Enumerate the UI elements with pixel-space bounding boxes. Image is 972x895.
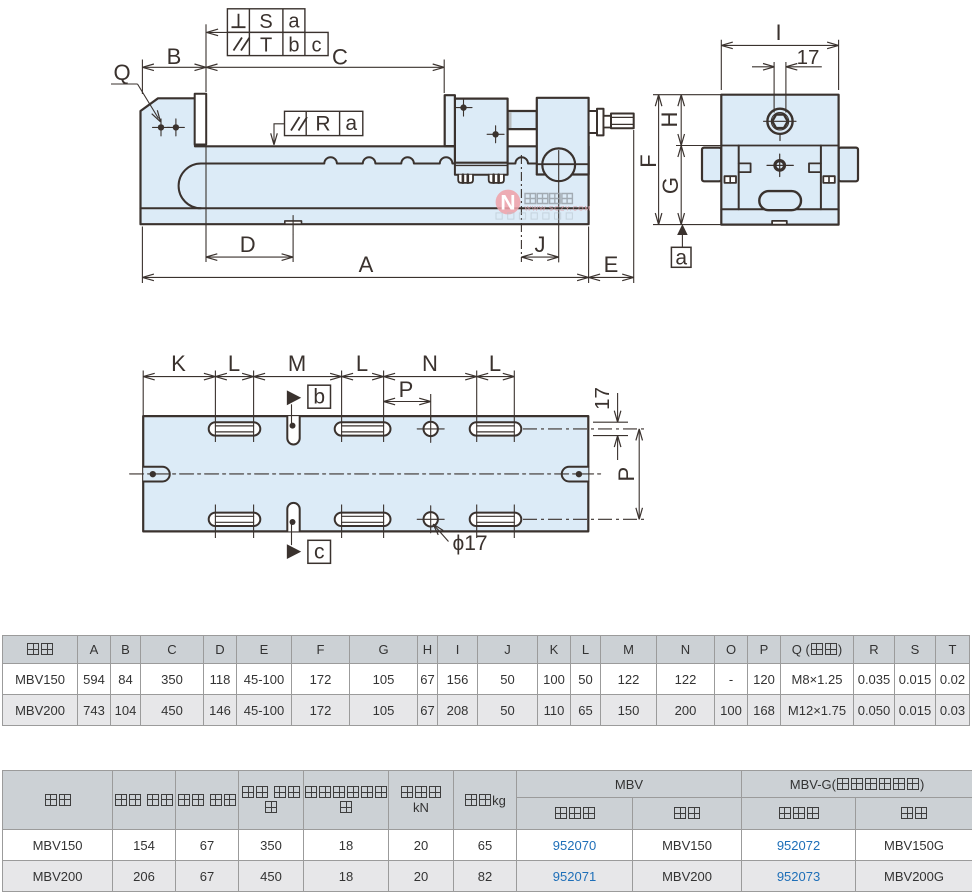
svg-text:b: b [288,35,299,57]
svg-text:Q: Q [113,60,130,85]
movable jaw plate [445,95,455,146]
dim G [680,146,682,225]
slot scalloped top line [201,157,589,163]
svg-text:J: J [535,232,546,257]
plan view body [143,416,588,531]
tolerance frame leader arrow [208,31,227,33]
plan M slot top [287,416,299,444]
end view center target circle [775,161,785,171]
dimension table 1 [2,635,970,726]
svg-text:N: N [500,192,515,215]
svg-text:ϕ17: ϕ17 [452,532,487,555]
svg-text:a: a [675,247,687,270]
extension line movable jaw face [443,60,445,94]
plan top slot 3 [470,422,522,435]
lead screw circle inner [771,113,788,130]
engineering drawing SVG [0,0,972,630]
screw collar 2 [597,109,604,136]
lead screw crosshair [764,121,796,140]
key tab centerline [292,216,294,235]
svg-text:L: L [228,351,240,376]
movable jaw gripper foot left [458,175,473,183]
plan bottom slot 1 [209,513,261,526]
svg-text:G: G [658,177,683,194]
handle hole vertical crosshair / J extension [558,151,560,263]
dim P right [638,429,640,519]
section flag c [287,545,300,558]
end view bottom key notch [772,221,787,225]
vise body (side view) [141,98,589,224]
parallelism frame (// R a) [285,111,363,135]
leader phi17 [434,526,448,542]
svg-text:T: T [260,35,272,57]
plan right slot centerlines [523,429,648,519]
svg-text:H: H [657,112,682,128]
handle hole circle [542,148,575,181]
plan bottom slot 2 [335,513,391,526]
extension line fixed jaw face [205,24,207,92]
svg-text:P: P [614,467,639,482]
svg-text:L: L [489,351,501,376]
slot line through bracket + circle crosshair [537,163,589,165]
section flag b [287,391,300,404]
end view left ear [702,148,721,182]
plan N hole bottom [424,512,438,526]
dim A [142,276,588,278]
plan right slot edge extensions [593,422,628,435]
svg-text:P: P [399,377,414,402]
end view main body [721,95,838,225]
end view base flange line [721,208,838,210]
plan top slot 2 [335,422,391,435]
movable jaw screw block [508,111,537,129]
plan bottom slot 3 [470,513,522,526]
movable jaw block [455,99,508,163]
extension lines A [142,227,588,284]
datum a box [671,247,691,267]
extension line E right (screw tip) [633,130,635,283]
svg-text:B: B [167,44,182,69]
svg-text:A: A [359,252,374,277]
screw collar 1 [589,111,597,133]
svg-text:c: c [312,35,322,57]
extension line D left (jaw face down) [205,147,207,263]
screw bracket block [537,98,589,175]
svg-text:K: K [171,351,186,376]
dim C [206,66,444,68]
bracket bottom line [537,174,589,176]
end view left guide notch [739,163,751,172]
tolerance frame row1 (perp S a) [227,9,305,33]
extension line D right (key tab) [292,234,294,262]
screw shaft [604,116,612,128]
svg-text:b: b [313,386,325,409]
fixed jaw plate [195,94,207,145]
base bottom key tab [285,221,302,224]
end view inner body sides [739,146,821,210]
extension line J left (dash-dot thru scallop) [520,155,522,262]
svg-text:I: I [776,20,782,45]
plan extension lines top row [143,371,514,443]
dim D [206,256,293,258]
end view right guide notch [809,163,821,172]
lead screw hex socket [772,115,788,129]
order table 2 [2,770,972,892]
watermark slogan boxes [496,213,572,219]
plan N hole top [424,422,438,436]
dim F [658,95,660,225]
svg-text:L: L [356,351,368,376]
extension lines F H G [653,95,721,225]
watermark logo disc [496,190,521,215]
dim H [680,95,682,146]
dim J [521,256,558,258]
fixed jaw position targets Q [153,119,185,136]
svg-text:17: 17 [591,387,614,410]
svg-text:a: a [288,11,300,33]
plan centerline [130,473,604,475]
svg-text:c: c [314,541,325,564]
plan top slot 1 [209,422,261,435]
tolerance frame row2 (// T b c) [227,32,328,55]
movable jaw gripper foot right [489,175,504,183]
extension lines I [721,40,838,90]
plan M slot bottom [287,503,299,532]
end view bottom obround slot [759,191,801,210]
dim 17 plan right [617,393,619,460]
extension lines 17 (end view) [774,62,786,113]
svg-text:C: C [332,45,348,70]
plan right end slot [562,467,589,482]
base/bed split line [141,207,589,209]
lead screw circle outer [767,109,792,134]
end view left jib block [725,176,737,183]
screw hex end [611,114,634,129]
svg-text:a: a [345,112,357,135]
dim 17 end view [752,66,822,68]
svg-text:M: M [288,351,306,376]
plan top dim line K L M L N L [143,376,514,378]
watermark CJK name [525,194,572,204]
extension line body left top [141,60,143,95]
svg-text:17: 17 [797,46,820,69]
svg-text:R: R [315,113,330,136]
label Q + leader [111,84,159,119]
movable jaw under plate [455,163,508,175]
svg-text:F: F [636,154,661,167]
plan extension lines bottom row [215,505,514,539]
svg-text:WWW.SCZY.COM: WWW.SCZY.COM [525,206,592,213]
datum a triangle [678,225,687,234]
end view right jib block [823,176,835,183]
dim B [142,66,206,68]
movable jaw position targets [455,99,504,143]
dim P top [384,394,431,420]
end view jaw step line [721,145,838,147]
svg-text:S: S [259,11,272,33]
svg-text:D: D [240,232,256,257]
dim I [721,44,838,46]
slot left end arc [179,164,201,209]
dim E [589,276,634,278]
end view right ear [839,148,858,182]
svg-text:N: N [422,351,438,376]
plan left end slot [143,467,170,482]
svg-text:E: E [604,252,619,277]
